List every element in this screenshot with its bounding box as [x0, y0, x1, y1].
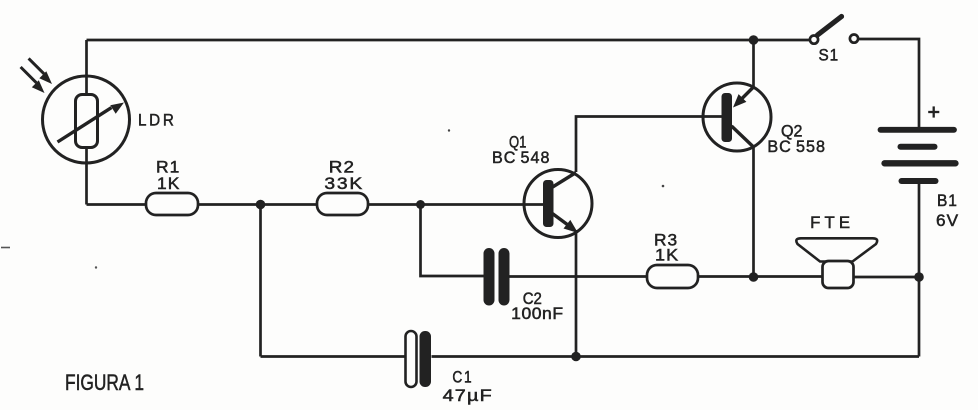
LDR inner resistor rect [76, 95, 98, 148]
LDR diagonal arrow [58, 103, 125, 143]
wire speaker to right vertical [852, 276, 919, 279]
junction node R1/R2 [256, 200, 266, 210]
junction node R2/Q1 base/C2 [416, 200, 425, 209]
resistor R3 [647, 265, 698, 288]
scan speck near R3 [662, 185, 665, 188]
svg-text:S1: S1 [819, 46, 840, 64]
label battery plus [928, 106, 939, 117]
battery B1 [881, 130, 956, 181]
capacitor C1 [406, 331, 432, 387]
junction node R3/Q2 collector [749, 272, 759, 282]
transistor Q2 [703, 83, 771, 151]
wire mid horizontal LDR to Q1 base [87, 203, 544, 206]
wire Q2 collector vertical down [752, 146, 755, 277]
svg-text:R1: R1 [156, 158, 180, 176]
wire top-right segment after switch to battery [858, 39, 920, 130]
wire bottom horizontal right of C1 [432, 355, 920, 358]
svg-text:33K: 33K [324, 175, 364, 193]
wire left vertical through LDR top [85, 40, 88, 95]
switch S1 [810, 17, 858, 44]
svg-text:1K: 1K [157, 175, 180, 193]
wire left vertical below LDR rect [85, 147, 88, 205]
svg-text:BC 548: BC 548 [492, 149, 550, 167]
svg-text:B1: B1 [937, 192, 958, 210]
wire right vertical battery to bottom [918, 183, 921, 357]
svg-text:LDR: LDR [138, 110, 177, 129]
light arrow upper [29, 58, 52, 84]
wire Q2 emitter vertical from top node [752, 40, 755, 88]
speaker FTE cone [796, 238, 877, 261]
resistor R2 [317, 193, 368, 215]
svg-text:C1: C1 [452, 368, 473, 386]
resistor R1 [146, 193, 198, 215]
wire R3 to speaker [698, 275, 824, 278]
svg-text:R2: R2 [329, 159, 355, 177]
svg-text:FIGURA 1: FIGURA 1 [65, 370, 144, 395]
wire Q1 emitter vertical down [575, 230, 578, 357]
wire top horizontal [87, 39, 810, 42]
transistor Q1 [524, 170, 592, 238]
wire Q1 collector up and right to Q2 base [576, 117, 722, 173]
LDR circle [43, 76, 130, 163]
scan speck left edge [1, 247, 10, 249]
junction node speaker/battery [914, 272, 924, 282]
svg-text:BC 558: BC 558 [767, 138, 826, 156]
svg-text:47µF: 47µF [443, 387, 493, 405]
svg-text:100nF: 100nF [511, 305, 563, 323]
wire vertical node A down to bottom-left corner [259, 205, 262, 357]
speaker FTE square [823, 261, 854, 288]
wire bottom horizontal left of C1 [261, 355, 406, 358]
junction node Q1 emitter/bottom [571, 352, 581, 362]
junction node S1/Q2 emitter [749, 35, 759, 45]
wire C2 to R3 [509, 275, 647, 278]
light arrow lower [21, 67, 45, 93]
svg-text:6V: 6V [936, 212, 959, 230]
capacitor C2 [489, 254, 504, 301]
wire C2 branch vertical and horizontal [421, 205, 485, 277]
svg-text:1K: 1K [655, 247, 679, 265]
svg-text:FTE: FTE [810, 214, 854, 232]
scan speck near R2 [448, 129, 450, 131]
scan speck below LDR [95, 266, 97, 268]
